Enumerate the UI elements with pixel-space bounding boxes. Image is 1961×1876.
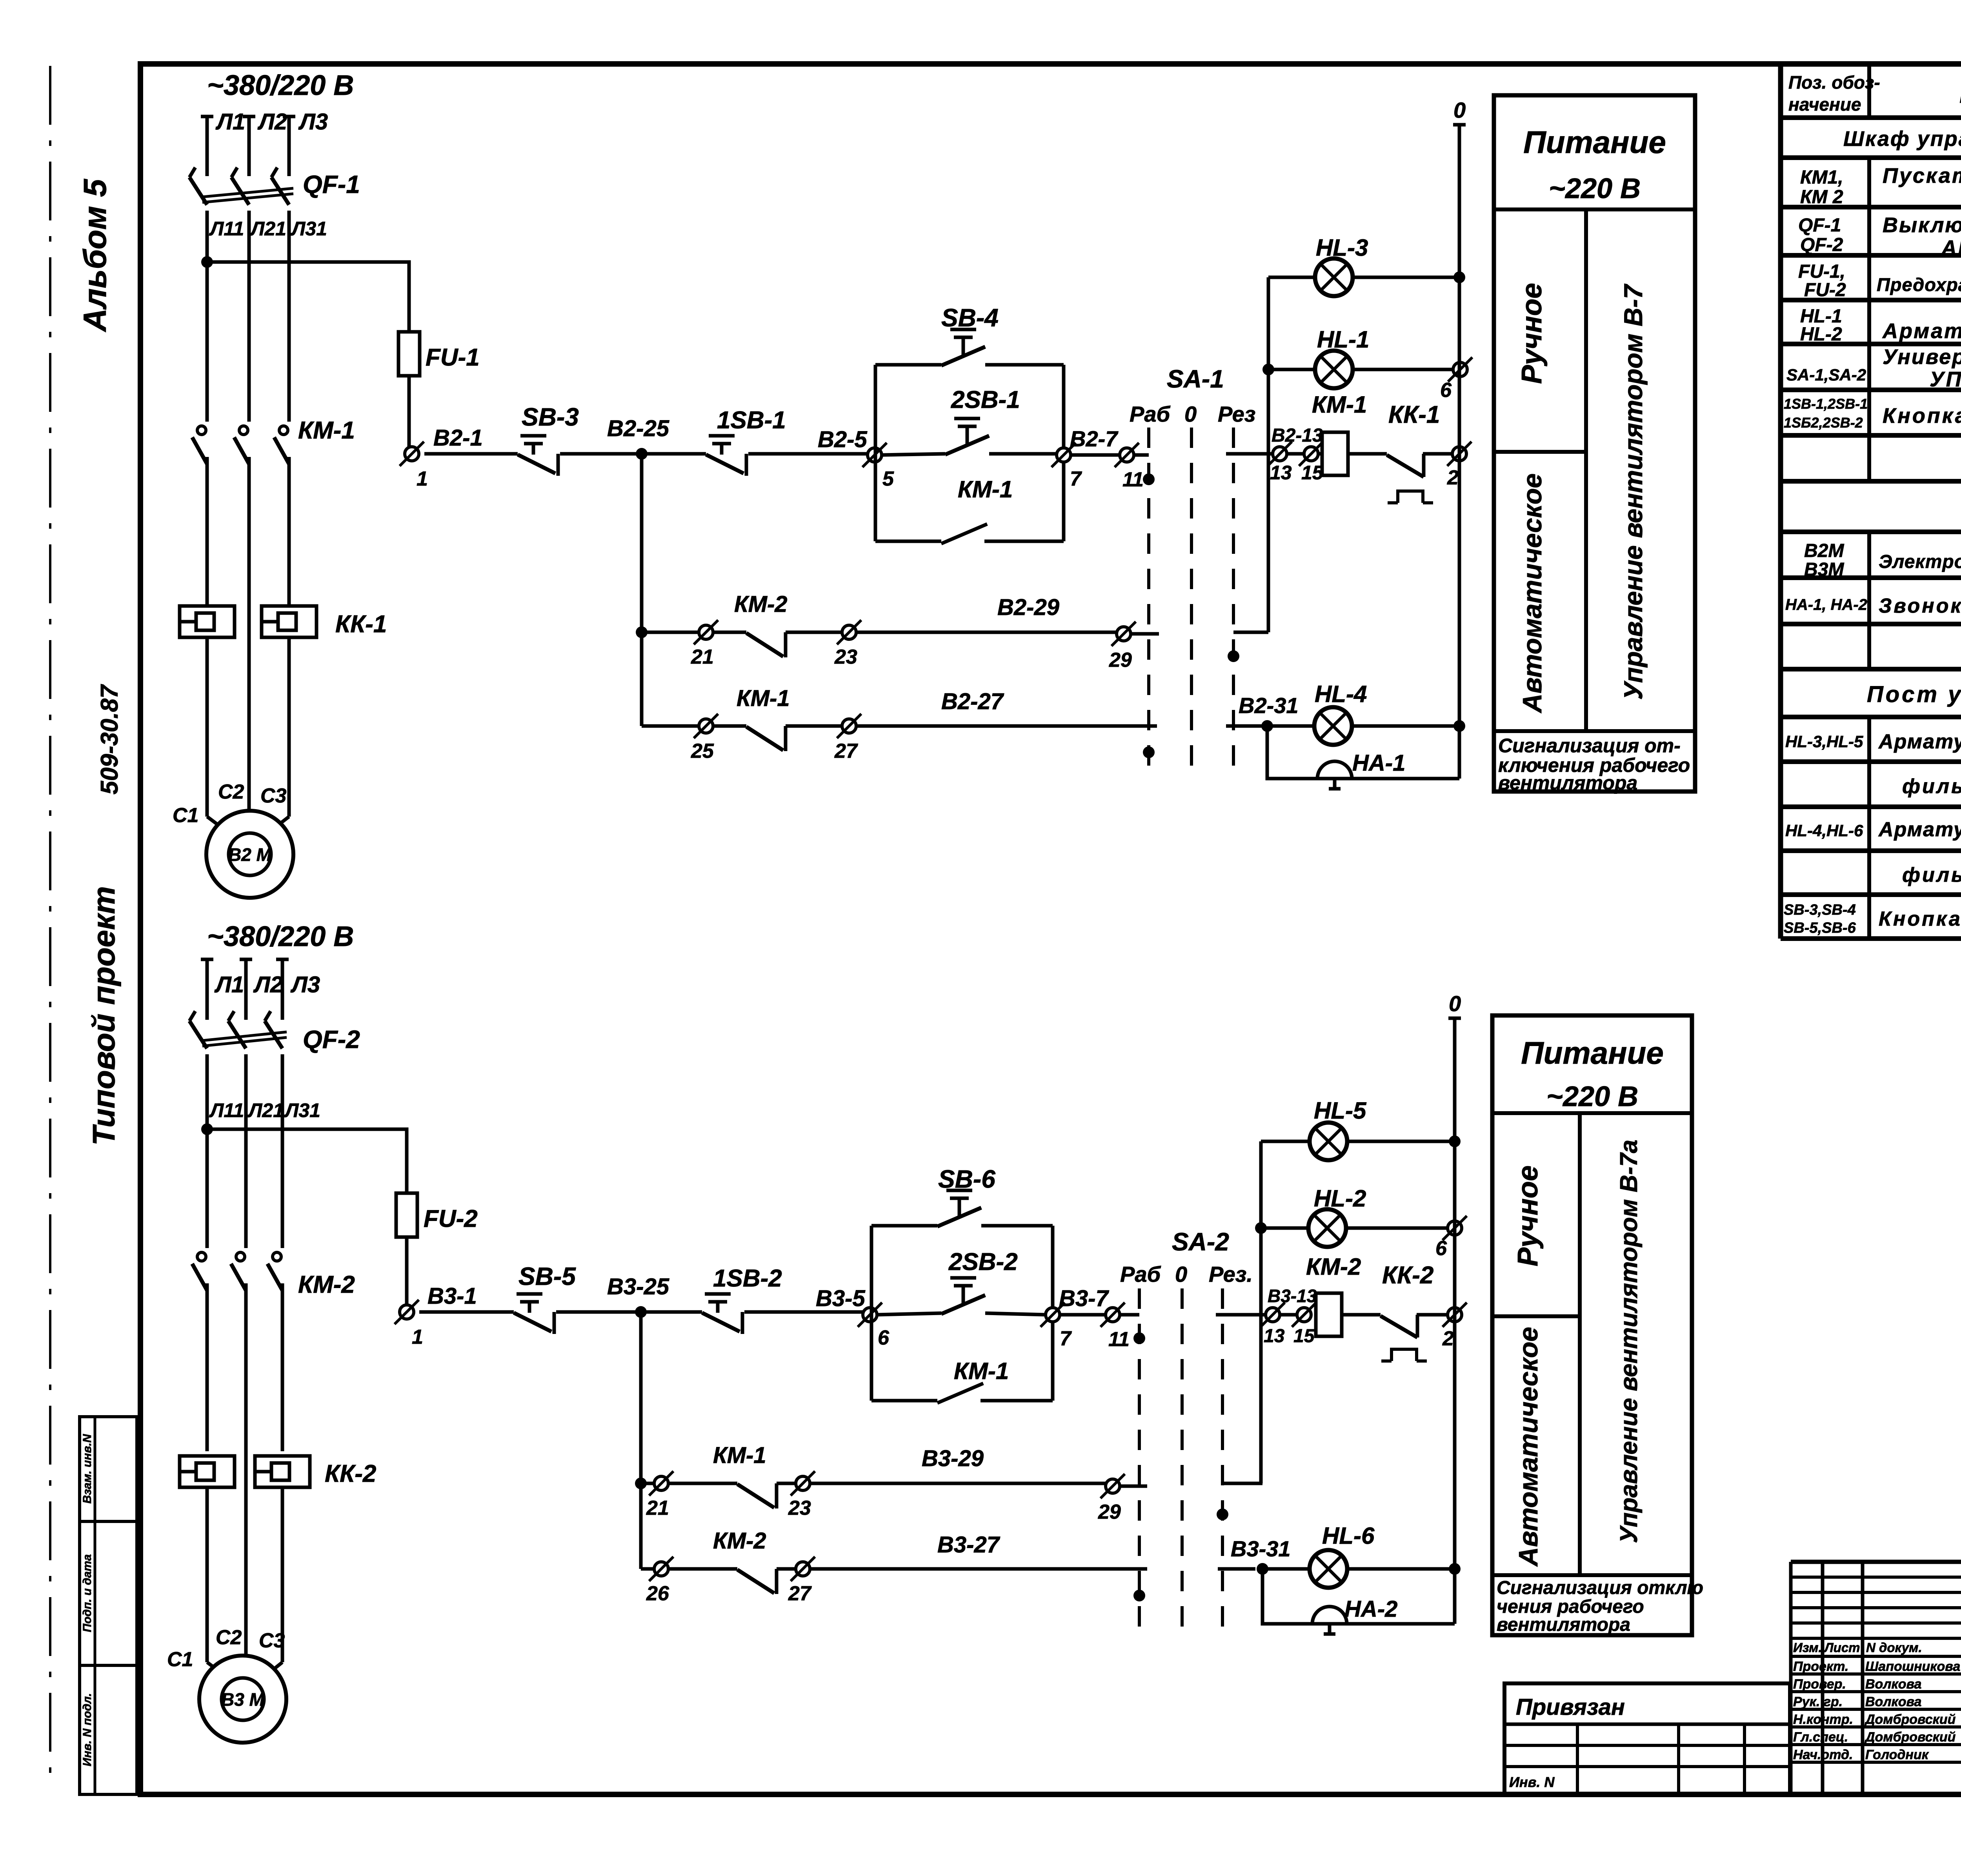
svg-text:Л31: Л31 (284, 1099, 320, 1121)
svg-text:УП5312-С 86: УП5312-С 86 (1930, 368, 1961, 391)
svg-text:29: 29 (1109, 649, 1132, 671)
svg-text:11: 11 (1108, 1328, 1130, 1351)
svg-text:С3: С3 (260, 784, 287, 807)
svg-text:FU-2: FU-2 (424, 1205, 478, 1232)
svg-text:В3-1: В3-1 (427, 1283, 477, 1309)
svg-text:Волкова: Волкова (1865, 1677, 1921, 1692)
svg-text:Управление вентилятором В-7: Управление вентилятором В-7 (1619, 284, 1648, 700)
svg-text:Л2: Л2 (257, 109, 287, 135)
svg-text:15: 15 (1293, 1326, 1315, 1346)
svg-text:Предохранитель типа ПРС-6-П, J: Предохранитель типа ПРС-6-П, Jпл.Вст.= 6… (1877, 274, 1961, 295)
svg-text:В3-29: В3-29 (922, 1446, 984, 1471)
svg-text:7: 7 (1060, 1327, 1072, 1350)
svg-text:В2-29: В2-29 (997, 595, 1059, 620)
svg-text:FU-2: FU-2 (1804, 280, 1846, 300)
svg-text:Автоматическое: Автоматическое (1513, 1327, 1543, 1567)
svg-text:21: 21 (646, 1497, 669, 1519)
svg-text:Волкова: Волкова (1865, 1694, 1921, 1709)
svg-text:фильтром АСТК: фильтром АСТК (1902, 864, 1961, 886)
svg-text:2: 2 (1442, 1327, 1454, 1350)
svg-text:КМ-2: КМ-2 (734, 591, 788, 617)
svg-text:HL-2: HL-2 (1314, 1185, 1366, 1212)
svg-text:SA-1,SA-2: SA-1,SA-2 (1786, 366, 1866, 384)
svg-text:27: 27 (834, 740, 858, 762)
svg-text:КМ-2: КМ-2 (298, 1271, 355, 1298)
svg-text:HL-1: HL-1 (1317, 326, 1369, 353)
svg-text:КМ-2: КМ-2 (1306, 1254, 1361, 1280)
svg-text:Рук. гр.: Рук. гр. (1793, 1694, 1843, 1709)
svg-text:Взам. инв.N: Взам. инв.N (81, 1434, 94, 1503)
svg-text:~380/220 В: ~380/220 В (207, 70, 354, 101)
svg-text:Л3: Л3 (290, 972, 320, 997)
svg-text:1: 1 (412, 1326, 423, 1348)
svg-text:26: 26 (646, 1582, 669, 1605)
svg-text:В2-25: В2-25 (607, 416, 669, 441)
svg-text:Нач.отд.: Нач.отд. (1793, 1747, 1853, 1762)
svg-text:Изм.: Изм. (1793, 1640, 1822, 1655)
svg-text:SA-2: SA-2 (1172, 1228, 1229, 1256)
svg-text:АП50-3 МТ , Jр = 4 А: АП50-3 МТ , Jр = 4 А (1941, 236, 1961, 260)
svg-text:HL-3: HL-3 (1316, 235, 1368, 261)
svg-text:КК-1: КК-1 (1388, 401, 1440, 428)
svg-text:Привязан: Привязан (1516, 1694, 1625, 1720)
svg-text:~220 В: ~220 В (1546, 1081, 1638, 1112)
svg-text:Рез: Рез (1218, 402, 1255, 426)
svg-text:Пускатель магнитный типа ПМЕ-1: Пускатель магнитный типа ПМЕ-111, (1883, 164, 1961, 187)
svg-text:Типовой проект: Типовой проект (86, 886, 121, 1145)
svg-text:Л21: Л21 (247, 1099, 284, 1121)
svg-text:SB-3: SB-3 (522, 403, 579, 431)
svg-text:НА-1, НА-2: НА-1, НА-2 (1785, 596, 1867, 613)
svg-text:Раб: Раб (1120, 1262, 1161, 1286)
svg-text:С2: С2 (218, 781, 244, 803)
svg-text:Проект.: Проект. (1793, 1659, 1848, 1674)
svg-text:HL-3,HL-5: HL-3,HL-5 (1785, 732, 1863, 751)
svg-text:КМ-1: КМ-1 (298, 417, 355, 444)
svg-text:509-30.87: 509-30.87 (96, 684, 123, 795)
svg-text:Раб: Раб (1130, 402, 1170, 426)
svg-text:Ручное: Ручное (1516, 283, 1548, 384)
svg-text:Шапошникова: Шапошникова (1865, 1659, 1960, 1674)
svg-text:С1: С1 (167, 1648, 193, 1671)
svg-text:N докум.: N докум. (1866, 1640, 1922, 1655)
svg-text:КМ 2: КМ 2 (1800, 187, 1843, 207)
svg-text:КМ-1: КМ-1 (954, 1358, 1009, 1384)
svg-text:SВ-3,SВ-4: SВ-3,SВ-4 (1784, 902, 1856, 918)
svg-text:В2М: В2М (1804, 540, 1844, 561)
svg-text:25: 25 (691, 740, 714, 762)
svg-text:11: 11 (1122, 468, 1144, 491)
svg-text:SA-1: SA-1 (1167, 365, 1224, 393)
svg-text:2SB-2: 2SB-2 (948, 1248, 1018, 1276)
svg-text:В2-13: В2-13 (1272, 425, 1323, 446)
svg-text:Л1: Л1 (214, 972, 244, 997)
svg-text:6: 6 (1440, 379, 1452, 402)
svg-text:23: 23 (788, 1497, 811, 1519)
svg-text:КМ1,: КМ1, (1800, 167, 1843, 188)
svg-text:HL-2: HL-2 (1800, 324, 1842, 345)
svg-text:29: 29 (1098, 1501, 1121, 1523)
svg-text:КМ-1: КМ-1 (1312, 391, 1367, 418)
svg-text:1SB-2: 1SB-2 (713, 1265, 782, 1292)
svg-text:~380/220 В: ~380/220 В (207, 921, 354, 952)
svg-text:5: 5 (882, 468, 894, 490)
svg-text:Арматура сигнальная с зеленым: Арматура сигнальная с зеленым свето- (1878, 730, 1961, 753)
svg-text:SB-5: SB-5 (518, 1262, 576, 1290)
svg-text:2: 2 (1447, 466, 1459, 489)
svg-text:6: 6 (878, 1326, 890, 1349)
svg-text:1SB-1,2SB-1: 1SB-1,2SB-1 (1784, 396, 1868, 412)
svg-text:1SB-1: 1SB-1 (717, 407, 786, 434)
svg-text:Поз. обоз-: Поз. обоз- (1788, 72, 1880, 93)
svg-text:В2-7: В2-7 (1070, 426, 1119, 451)
svg-text:Сигнализация отклю: Сигнализация отклю (1497, 1578, 1703, 1598)
svg-text:Альбом 5: Альбом 5 (77, 178, 113, 332)
svg-text:В3-5: В3-5 (816, 1286, 865, 1311)
svg-text:1: 1 (417, 468, 428, 490)
svg-text:КК-1: КК-1 (335, 611, 387, 638)
svg-text:НА-2: НА-2 (1344, 1596, 1397, 1622)
svg-text:Электродвигатель типа В 71В4,: Электродвигатель типа В 71В4, N=0.75 кВт (1879, 551, 1961, 572)
svg-text:FU-1,: FU-1, (1798, 261, 1845, 282)
svg-text:В3-13: В3-13 (1268, 1286, 1317, 1306)
svg-text:В3-25: В3-25 (607, 1274, 669, 1299)
svg-text:Автоматическое: Автоматическое (1517, 473, 1547, 713)
svg-text:С3: С3 (259, 1629, 285, 1652)
svg-text:Управление вентилятором В-7а: Управление вентилятором В-7а (1615, 1140, 1643, 1543)
svg-text:Л2: Л2 (253, 972, 283, 997)
svg-text:Инв. N подл.: Инв. N подл. (81, 1693, 94, 1767)
svg-text:0: 0 (1453, 98, 1466, 122)
svg-text:2SB-1: 2SB-1 (951, 386, 1020, 413)
svg-text:Н.контр.: Н.контр. (1793, 1712, 1853, 1727)
svg-text:HL-5: HL-5 (1314, 1097, 1367, 1124)
svg-text:QF-2: QF-2 (303, 1025, 360, 1054)
svg-text:SB-6: SB-6 (938, 1165, 995, 1193)
svg-text:В2-1: В2-1 (433, 425, 483, 451)
svg-text:QF-2: QF-2 (1800, 235, 1843, 255)
svg-text:Голодник: Голодник (1865, 1747, 1929, 1762)
svg-text:15: 15 (1301, 462, 1324, 484)
svg-text:С1: С1 (173, 804, 198, 827)
svg-text:В2 М: В2 М (228, 844, 272, 865)
svg-text:Домбровский: Домбровский (1864, 1730, 1956, 1745)
svg-text:6: 6 (1435, 1237, 1447, 1260)
svg-text:HL-4: HL-4 (1315, 681, 1367, 707)
svg-text:Л1: Л1 (215, 109, 245, 135)
svg-text:Наименование: Наименование (1959, 76, 1961, 109)
svg-text:23: 23 (834, 646, 857, 668)
svg-text:Питание: Питание (1523, 125, 1666, 160)
svg-text:начение: начение (1788, 94, 1861, 115)
svg-text:Л21: Л21 (250, 218, 286, 240)
svg-text:В3 М: В3 М (221, 1689, 265, 1710)
svg-text:В3-31: В3-31 (1231, 1536, 1291, 1561)
svg-text:КК-2: КК-2 (325, 1460, 376, 1487)
svg-text:HL-4,HL-6: HL-4,HL-6 (1785, 821, 1863, 840)
svg-text:вентилятора: вентилятора (1497, 1614, 1630, 1635)
svg-text:Выключатель автоматический ти: Выключатель автоматический типа (1883, 213, 1961, 237)
svg-text:Арматура сигнальная типа АЕ311: Арматура сигнальная типа АЕ311У3 (1882, 319, 1961, 343)
svg-text:В2-27: В2-27 (941, 689, 1004, 714)
svg-text:В2-5: В2-5 (818, 427, 867, 452)
svg-text:0: 0 (1184, 402, 1197, 426)
svg-text:0: 0 (1175, 1262, 1187, 1286)
svg-text:НА-1: НА-1 (1352, 750, 1405, 776)
svg-text:Рез.: Рез. (1209, 1262, 1253, 1286)
svg-text:Универсальный переключатель т: Универсальный переключатель типа (1883, 345, 1961, 369)
svg-text:Сигнализация от-: Сигнализация от- (1498, 735, 1681, 757)
svg-text:FU-1: FU-1 (426, 344, 480, 371)
svg-text:Кнопка управления КУ, 1р+1з: Кнопка управления КУ, 1р+1з (1879, 908, 1961, 930)
svg-text:SB-4: SB-4 (941, 304, 999, 332)
svg-text:27: 27 (788, 1582, 812, 1605)
svg-text:HL-6: HL-6 (1322, 1523, 1375, 1549)
svg-text:Питание: Питание (1521, 1035, 1664, 1070)
svg-text:В3-7: В3-7 (1059, 1286, 1109, 1311)
svg-text:Л3: Л3 (298, 109, 328, 135)
svg-text:Инв. N: Инв. N (1509, 1774, 1555, 1790)
svg-text:~220 В: ~220 В (1549, 173, 1641, 204)
svg-text:Л11: Л11 (209, 218, 244, 240)
svg-text:Провер.: Провер. (1793, 1677, 1846, 1692)
svg-text:С2: С2 (216, 1626, 242, 1649)
svg-text:Подп. и дата: Подп. и дата (81, 1554, 94, 1632)
svg-text:КМ-1: КМ-1 (713, 1443, 766, 1468)
svg-text:В3М: В3М (1804, 559, 1844, 580)
svg-text:Лист: Лист (1824, 1640, 1860, 1655)
svg-text:Л11: Л11 (209, 1099, 244, 1121)
svg-text:Шкаф управления ВЕШУ(ЯУ5117-03: Шкаф управления ВЕШУ(ЯУ5117-03А2Ж - степ… (1843, 127, 1961, 151)
svg-text:Кнопка управления типа КЕ011У: Кнопка управления типа КЕ011У3 (1883, 404, 1961, 428)
svg-text:Арматура сигнальная с красным: Арматура сигнальная с красным свето (1878, 818, 1961, 841)
svg-text:В3-27: В3-27 (937, 1532, 1001, 1558)
svg-text:13: 13 (1270, 462, 1292, 484)
svg-text:Домбровский: Домбровский (1864, 1712, 1956, 1727)
svg-text:Л31: Л31 (291, 218, 327, 240)
svg-text:Звонок электрический типа 3ВП-: Звонок электрический типа 3ВП-220 (1879, 595, 1961, 617)
svg-text:1SБ2,2SВ-2: 1SБ2,2SВ-2 (1784, 415, 1863, 431)
svg-text:вентилятора: вентилятора (1498, 772, 1637, 794)
svg-text:КМ-2: КМ-2 (713, 1528, 766, 1554)
svg-text:SВ-5,SВ-6: SВ-5,SВ-6 (1784, 920, 1856, 936)
svg-text:7: 7 (1070, 468, 1082, 490)
svg-text:Пост управления ПС 5 ( ПКУ15-: Пост управления ПС 5 ( ПКУ15-19.331-54У2… (1867, 682, 1961, 707)
svg-text:Ручное: Ручное (1512, 1165, 1544, 1266)
svg-text:21: 21 (691, 646, 714, 668)
svg-text:В2-31: В2-31 (1239, 693, 1299, 718)
svg-text:Гл.спец.: Гл.спец. (1793, 1730, 1848, 1745)
svg-text:КК-2: КК-2 (1382, 1262, 1433, 1289)
svg-text:QF-1: QF-1 (303, 170, 360, 198)
svg-text:0: 0 (1449, 991, 1461, 1016)
svg-text:QF-1: QF-1 (1798, 215, 1841, 236)
svg-text:фильтром АСТ3: фильтром АСТ3 (1902, 775, 1961, 798)
svg-text:КМ-1: КМ-1 (958, 476, 1013, 502)
svg-text:КМ-1: КМ-1 (737, 686, 790, 711)
svg-text:13: 13 (1264, 1326, 1285, 1346)
